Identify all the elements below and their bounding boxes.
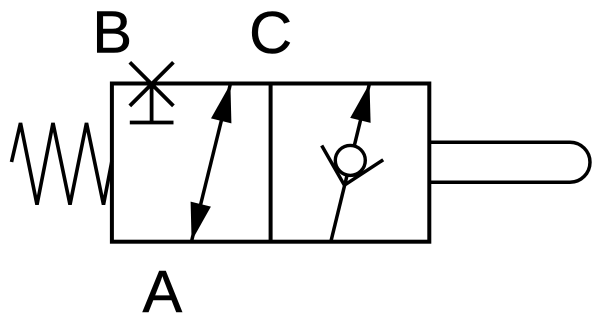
return spring: [12, 123, 112, 205]
check valve seat: [322, 146, 384, 186]
plugged port bar (port B): [130, 121, 174, 125]
plunger actuator: [429, 142, 590, 182]
svg-text:A: A: [143, 258, 183, 322]
flow line through check valve (right box): [331, 84, 370, 242]
check valve ball: [335, 145, 365, 175]
svg-text:B: B: [92, 0, 132, 65]
double-headed flow arrow line (A-C path, left box): [192, 84, 231, 241]
flow arrow head top: [211, 84, 231, 123]
plugged port stem (port B): [150, 84, 154, 121]
check valve arrow head: [350, 84, 370, 123]
position divider line: [269, 84, 273, 242]
flow arrow head bottom: [191, 202, 211, 241]
blocked port X symbol at port B: [130, 62, 174, 106]
valve body outline (two position boxes): [112, 84, 429, 242]
svg-text:C: C: [249, 0, 292, 66]
